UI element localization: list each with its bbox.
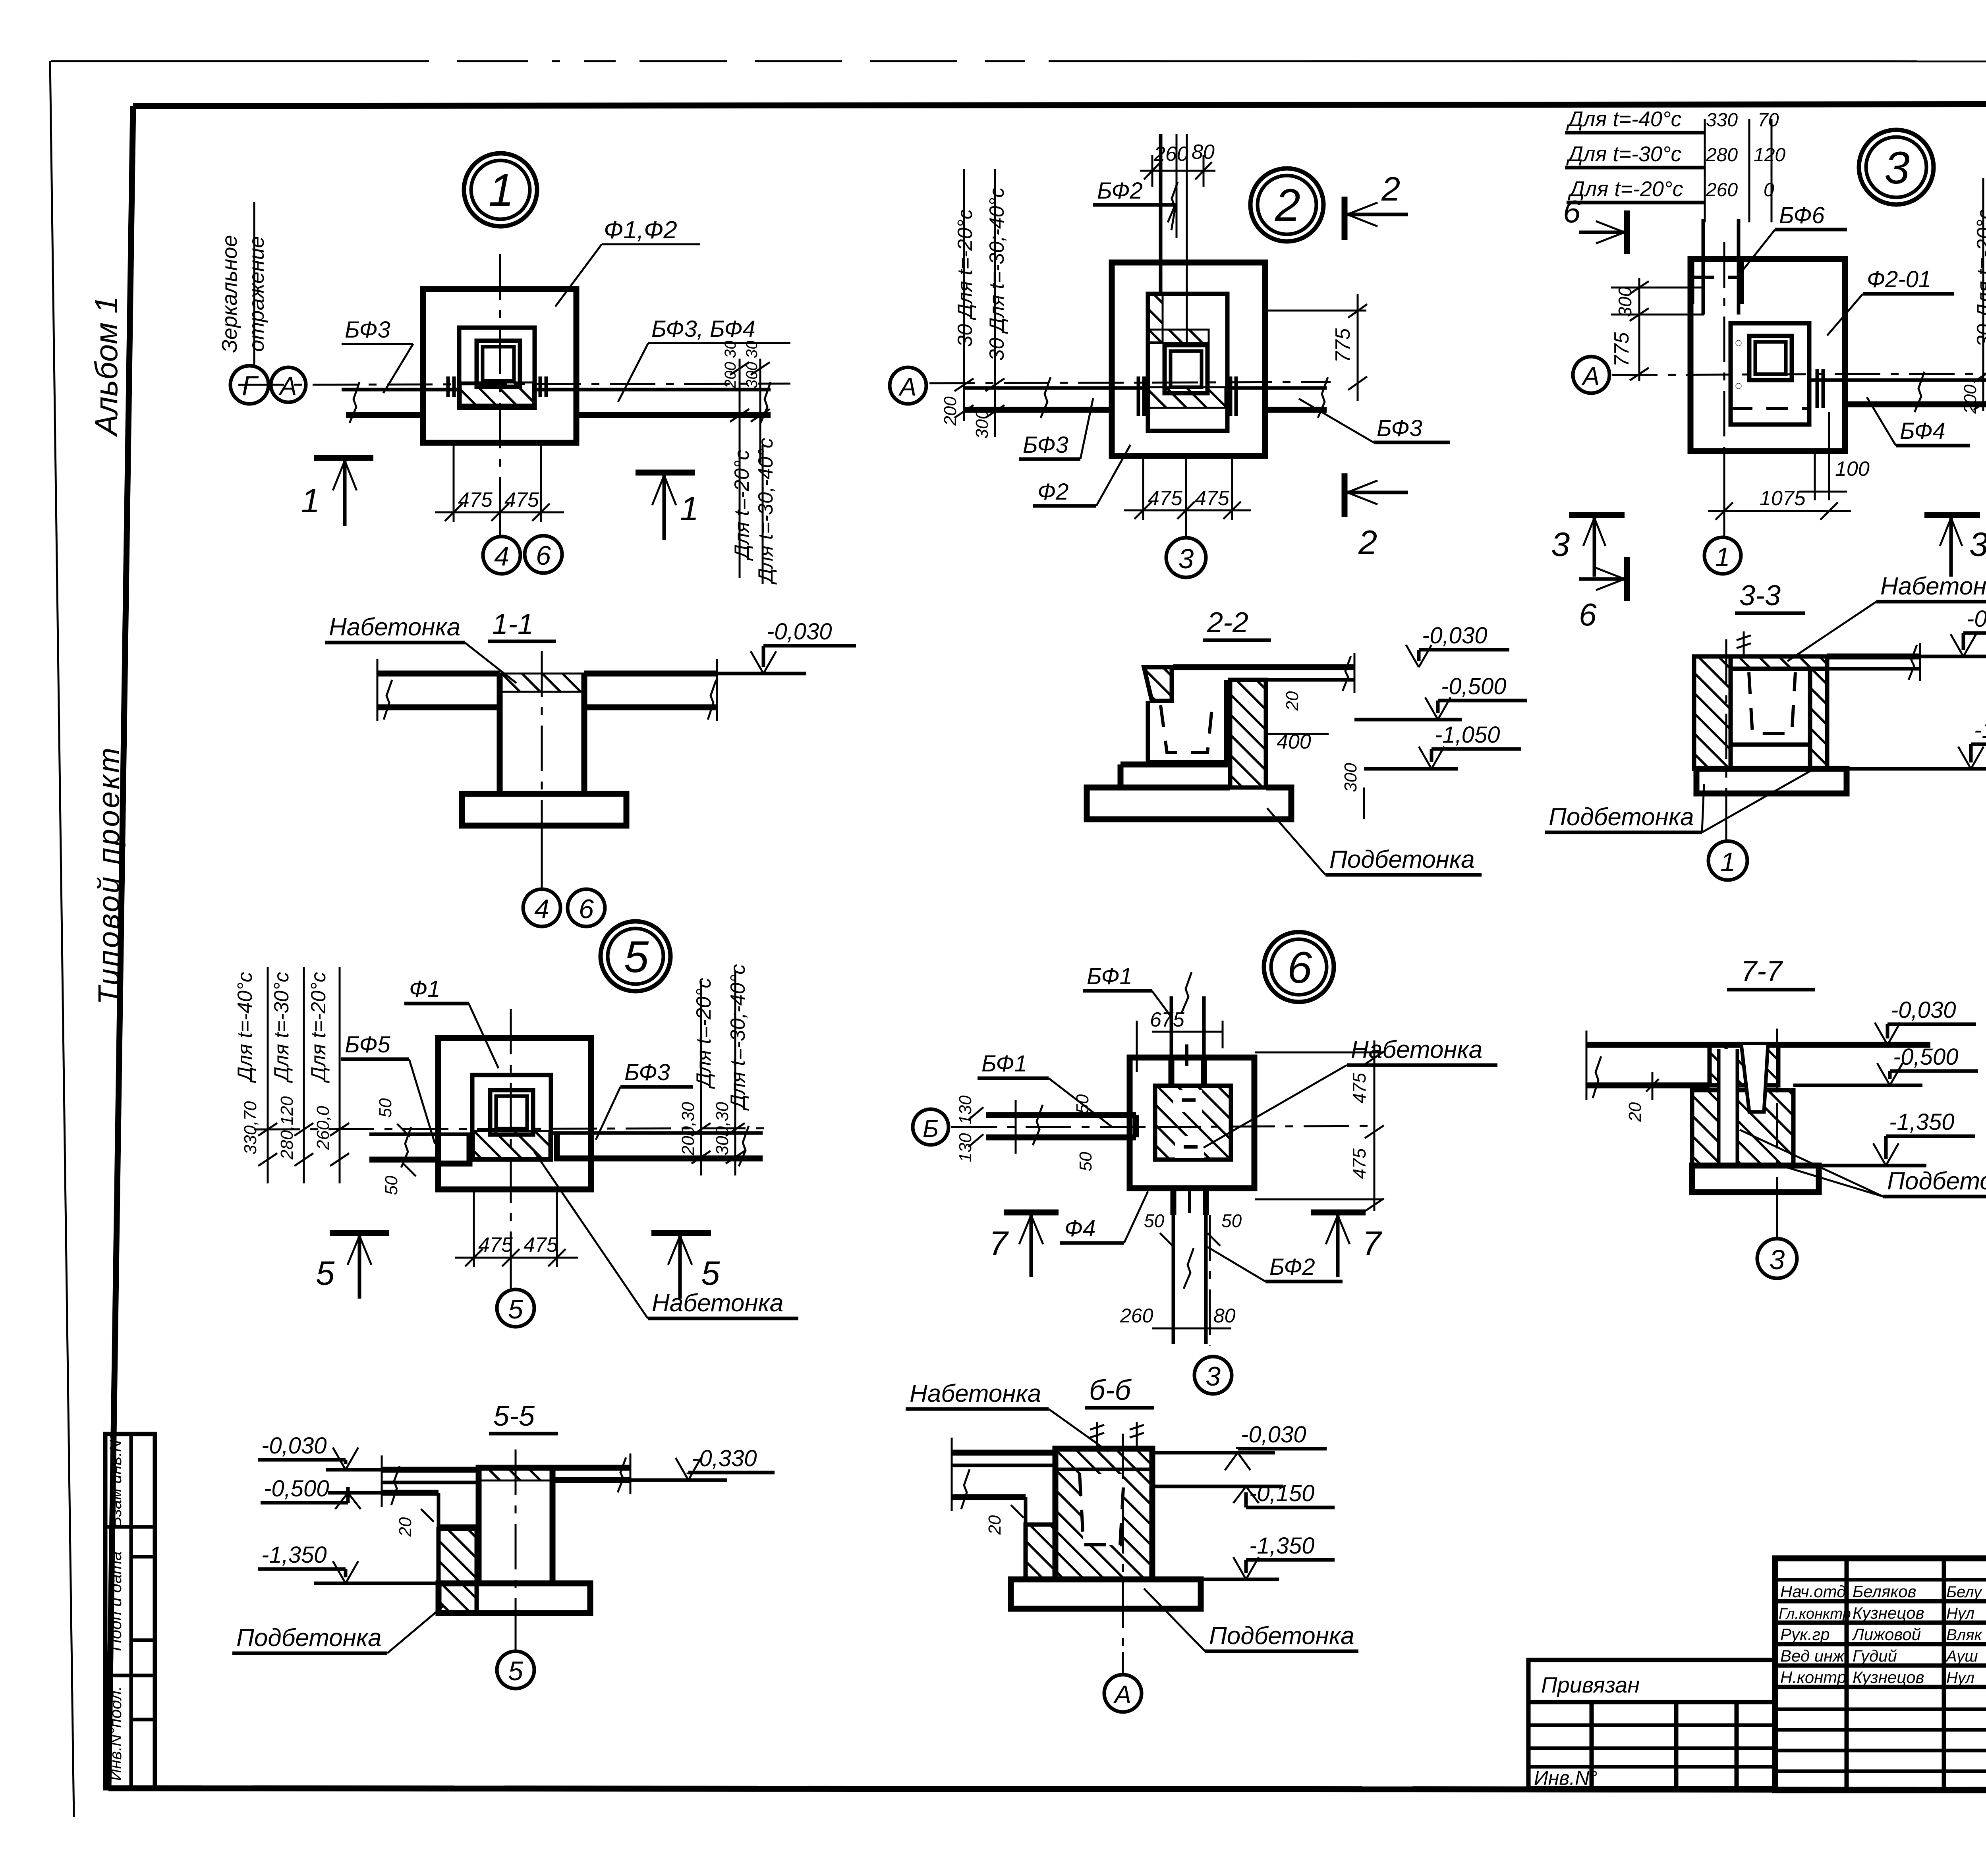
svg-text:330,70: 330,70: [241, 1101, 260, 1154]
left slab: [952, 1450, 1055, 1456]
svg-text:Подбетонка: Подбетонка: [1549, 803, 1694, 831]
svg-text:5-5: 5-5: [493, 1400, 535, 1432]
svg-text:20: 20: [985, 1515, 1005, 1535]
svg-text:300: 300: [1615, 286, 1635, 317]
section mark 2 bottom: [1342, 473, 1348, 517]
dim 260 80 top: [1151, 155, 1153, 187]
svg-text:Нул: Нул: [1946, 1669, 1974, 1687]
svg-text:5: 5: [701, 1255, 720, 1292]
svg-text:200: 200: [722, 362, 739, 389]
svg-text:80: 80: [1213, 1305, 1236, 1327]
ticks at inner square: [1137, 376, 1140, 416]
svg-text:БФ2: БФ2: [1269, 1254, 1315, 1280]
svg-text:-0,030: -0,030: [767, 619, 832, 645]
axis horizontal through square: [1155, 1126, 1374, 1127]
svg-text:Взам инв.N°: Взам инв.N°: [106, 1433, 125, 1528]
svg-text:Вляк: Вляк: [1946, 1626, 1983, 1644]
svg-text:2: 2: [1381, 170, 1400, 208]
section 2-2: [1087, 607, 1527, 875]
svg-text:475: 475: [458, 488, 493, 511]
footing square F1,F2: [423, 289, 576, 443]
white anchor channels: [1719, 1049, 1737, 1164]
rebar mark on top: [1743, 631, 1745, 656]
node 1 plan: [218, 153, 790, 585]
sheet outer thin left line: [50, 61, 74, 1817]
svg-text:260: 260: [1706, 179, 1738, 201]
svg-text:Нач.отд.: Нач.отд.: [1780, 1582, 1851, 1601]
svg-text:-0,030: -0,030: [261, 1433, 326, 1459]
section 5-5: [232, 1400, 775, 1689]
svg-text:50: 50: [376, 1098, 395, 1117]
svg-text:Беляков: Беляков: [1853, 1582, 1916, 1601]
svg-text:Набетонка: Набетонка: [652, 1289, 783, 1317]
svg-text:6: 6: [1579, 597, 1597, 632]
svg-text:50: 50: [1076, 1152, 1095, 1171]
privyazan table: [1528, 1660, 1775, 1789]
node 3 plan: [1551, 107, 1986, 632]
footing F4: [1130, 1058, 1254, 1188]
nabetonka hatch: [500, 674, 584, 692]
svg-text:1: 1: [680, 490, 699, 528]
node 6 plan: [913, 932, 1497, 1394]
top slab: [1173, 664, 1354, 670]
svg-text:5: 5: [624, 932, 649, 982]
svg-text:Н.контр.: Н.контр.: [1780, 1668, 1851, 1687]
svg-text:БФ3: БФ3: [1023, 432, 1068, 458]
svg-text:7: 7: [989, 1225, 1009, 1262]
signature table: [1775, 1578, 1986, 1582]
svg-text:300,30: 300,30: [713, 1102, 732, 1155]
svg-text:-1,350: -1,350: [1889, 1109, 1954, 1135]
svg-text:30: 30: [722, 341, 739, 359]
hatch upper sliver: [1149, 295, 1163, 342]
svg-text:50: 50: [1144, 1210, 1165, 1231]
axis vertical: [510, 1009, 512, 1239]
svg-text:100: 100: [1835, 457, 1870, 481]
svg-text:-1,350: -1,350: [261, 1542, 326, 1568]
wall hatchy ticks at column: [446, 376, 450, 397]
dim 1075: [1723, 451, 1725, 520]
svg-text:4: 4: [494, 541, 509, 571]
svg-text:50: 50: [382, 1175, 401, 1195]
svg-text:БФ2: БФ2: [1097, 178, 1143, 204]
svg-text:7-7: 7-7: [1741, 955, 1783, 987]
axis circle A: [271, 367, 306, 402]
svg-text:Альбом 1: Альбом 1: [89, 296, 124, 437]
left dim strip: [963, 169, 965, 421]
svg-text:Г: Г: [242, 370, 259, 401]
section mark 1 left: [314, 455, 373, 461]
svg-text:БФ1: БФ1: [1087, 963, 1132, 989]
svg-text:Набетонка: Набетонка: [1351, 1036, 1482, 1063]
svg-text:475: 475: [504, 488, 539, 511]
svg-text:1: 1: [301, 482, 320, 520]
podbetonka hatched column: [439, 1529, 477, 1613]
svg-text:475: 475: [524, 1233, 558, 1256]
footing: [1692, 1166, 1819, 1192]
svg-text:300: 300: [1341, 763, 1360, 792]
svg-text:-0,030: -0,030: [1891, 997, 1956, 1023]
footing F2: [1112, 262, 1265, 456]
node 2 plan: [890, 134, 1450, 577]
svg-text:А: А: [278, 372, 297, 400]
svg-text:-0,500: -0,500: [1893, 1044, 1958, 1070]
section mark 3 left: [1569, 512, 1625, 518]
dim 100: [1814, 451, 1816, 500]
svg-text:Для t=-30°c: Для t=-30°c: [1566, 142, 1682, 166]
svg-text:-1,350: -1,350: [1974, 717, 1986, 743]
pier: [497, 674, 503, 794]
svg-text:Кузнецов: Кузнецов: [1853, 1668, 1924, 1687]
svg-text:Привязан: Привязан: [1541, 1672, 1640, 1697]
right dim strip: [700, 981, 702, 1175]
vertical wall BF1 up: [1170, 996, 1173, 1058]
svg-text:1: 1: [1720, 847, 1735, 877]
svg-text:Для t=-20°c: Для t=-20°c: [307, 972, 330, 1083]
hatched pier body: [1692, 1090, 1793, 1166]
svg-text:БФ1: БФ1: [981, 1051, 1027, 1077]
central hatched column: [1230, 680, 1266, 787]
svg-text:Гудий: Гудий: [1853, 1646, 1897, 1665]
svg-text:Зеркальное: Зеркальное: [218, 235, 241, 353]
axis vertical to circle 3: [1185, 456, 1187, 537]
svg-text:БФ3, БФ4: БФ3, БФ4: [651, 316, 755, 342]
svg-text:775: 775: [1331, 328, 1354, 363]
svg-text:475: 475: [1349, 1148, 1370, 1179]
svg-text:6: 6: [536, 540, 551, 571]
dim 775 right: [1265, 310, 1366, 312]
white trough dashed inside: [1080, 1474, 1124, 1545]
section mark 5 right: [651, 1230, 711, 1236]
left dim strip triple: [267, 967, 269, 1183]
section mark 1 right: [636, 470, 695, 476]
svg-text:БФ3: БФ3: [345, 317, 390, 343]
svg-text:1: 1: [1716, 542, 1730, 571]
small hatched step left: [1026, 1525, 1055, 1579]
svg-text:БФ6: БФ6: [1779, 203, 1825, 228]
section mark 2 top: [1342, 197, 1348, 240]
axis: [1122, 1434, 1124, 1652]
dim 675: [1152, 1031, 1223, 1033]
BF2 wall strip from top: [1159, 134, 1163, 295]
svg-text:775: 775: [1610, 332, 1633, 367]
svg-text:Лижовой: Лижовой: [1851, 1625, 1921, 1644]
axis horizontal: [929, 382, 1331, 383]
svg-text:280: 280: [1706, 145, 1738, 166]
svg-text:6: 6: [1563, 194, 1581, 229]
wall left: [342, 388, 461, 392]
left slab: [382, 1467, 479, 1473]
svg-text:280,120: 280,120: [277, 1096, 297, 1160]
column: [1165, 345, 1207, 393]
svg-text:Ф2-01: Ф2-01: [1867, 266, 1931, 292]
horizontal wall left: [986, 1112, 1136, 1118]
right slab: [553, 1465, 630, 1471]
svg-text:475: 475: [1349, 1073, 1370, 1103]
section mark 7 right: [1311, 1210, 1366, 1216]
hatch band at axis: [1149, 387, 1225, 408]
section 1-1: [325, 608, 856, 926]
svg-text:Гл.конктр: Гл.конктр: [1779, 1606, 1851, 1622]
svg-text:Набетонка: Набетонка: [910, 1380, 1041, 1407]
section 6-6: [906, 1374, 1358, 1712]
svg-text:Подбетонка: Подбетонка: [1209, 1622, 1354, 1650]
right dim strip: [1982, 178, 1984, 411]
trough right wall hatched: [1810, 669, 1827, 769]
footing: [439, 1583, 590, 1613]
svg-text:2: 2: [1358, 524, 1377, 562]
svg-text:Набетонка: Набетонка: [1880, 573, 1986, 600]
axis circle G: [230, 366, 269, 404]
svg-text:20: 20: [1283, 691, 1302, 711]
svg-text:2: 2: [1275, 180, 1300, 231]
svg-text:Ф1,Ф2: Ф1,Ф2: [604, 216, 677, 244]
svg-text:Нул: Нул: [1946, 1605, 1974, 1622]
column: [490, 1090, 533, 1135]
sheet outer thin top line: [51, 60, 429, 62]
svg-text:-0,030: -0,030: [1422, 623, 1487, 648]
hatch band: [474, 1131, 549, 1158]
svg-text:Для t=-30°c: Для t=-30°c: [270, 972, 293, 1083]
svg-text:БФ3: БФ3: [624, 1060, 670, 1085]
dim 260 80 bottom: [1173, 1310, 1175, 1338]
axis horizontal: [238, 384, 790, 385]
svg-text:20: 20: [396, 1517, 415, 1537]
svg-text:А: А: [898, 372, 917, 401]
svg-text:260,0: 260,0: [313, 1106, 333, 1150]
section mark 6 bottom: [1579, 577, 1625, 581]
section mark 3 right: [1924, 512, 1980, 518]
hatch band: [461, 382, 533, 405]
svg-text:2-2: 2-2: [1207, 607, 1248, 639]
svg-text:200: 200: [941, 396, 960, 426]
svg-text:3-3: 3-3: [1739, 580, 1781, 612]
dim 475 475: [473, 1189, 475, 1267]
footing: [1011, 1579, 1201, 1609]
svg-text:Ауш: Ауш: [1945, 1648, 1978, 1665]
vertical wall BF2 down: [1171, 1188, 1177, 1215]
pier: [479, 1468, 553, 1583]
svg-text:-0,030: -0,030: [1241, 1422, 1306, 1448]
axis vertical: [1723, 242, 1725, 473]
inner square hatched: [1155, 1086, 1231, 1160]
svg-text:Ф4: Ф4: [1064, 1216, 1095, 1241]
svg-text:5: 5: [508, 1294, 523, 1324]
svg-text:Для t=-20°c: Для t=-20°c: [692, 978, 715, 1089]
svg-text:200,30: 200,30: [678, 1102, 698, 1156]
svg-text:300: 300: [972, 409, 992, 439]
BF6 pilaster at top: [1702, 219, 1705, 315]
axis vertical: [499, 254, 501, 496]
axis circle B: [913, 1109, 949, 1145]
bottom circle 3: [1194, 1357, 1232, 1394]
left hatched wall: [1694, 656, 1731, 769]
axis: [1725, 639, 1727, 818]
bottom circle 5: [497, 1289, 534, 1327]
rebar marks on top: [1096, 1422, 1098, 1449]
svg-text:Для t=-20°c: Для t=-20°c: [730, 450, 753, 561]
dashed line inside: [1731, 407, 1809, 410]
wall right: [552, 1131, 763, 1135]
svg-text:-0,500: -0,500: [1441, 674, 1506, 699]
left hatched block: [1144, 667, 1172, 701]
svg-text:Для t=-40°c: Для t=-40°c: [234, 972, 257, 1083]
wall right: [535, 388, 771, 392]
svg-text:Для t=-40°c: Для t=-40°c: [1566, 107, 1682, 131]
svg-text:30 Для t=-20°c: 30 Для t=-20°c: [1973, 209, 1986, 347]
main frame: [133, 104, 1986, 106]
svg-text:30 Для t=-20°c: 30 Для t=-20°c: [954, 209, 977, 347]
svg-text:Подбетонка: Подбетонка: [1329, 846, 1475, 873]
svg-text:5: 5: [508, 1656, 523, 1686]
dims 130 130 left: [1015, 1100, 1017, 1154]
svg-text:3: 3: [1551, 526, 1570, 564]
column: [477, 341, 520, 387]
svg-text:3: 3: [1770, 1244, 1785, 1275]
svg-text:Подп и дата: Подп и дата: [106, 1551, 125, 1651]
anchor ticks: [1816, 369, 1819, 408]
svg-text:7: 7: [1362, 1225, 1382, 1262]
axis horizontal: [254, 1128, 767, 1129]
slab: [377, 671, 500, 677]
step footing: [1087, 764, 1291, 819]
svg-text:3: 3: [1969, 526, 1986, 564]
svg-text:Ф2: Ф2: [1037, 479, 1068, 505]
axis: [1776, 1029, 1778, 1223]
svg-text:3: 3: [1884, 143, 1910, 193]
top slab hatch: [1731, 656, 1827, 669]
footing: [1696, 769, 1847, 793]
left margin table strip: [105, 1433, 155, 1788]
axis horizontal: [1612, 374, 1986, 375]
svg-text:1: 1: [489, 165, 514, 216]
svg-text:Кузнецов: Кузнецов: [1853, 1604, 1924, 1622]
wall right: [1226, 386, 1327, 390]
right dim strip: [739, 359, 741, 463]
svg-text:-0,030: -0,030: [1967, 606, 1986, 632]
svg-text:отражение: отражение: [245, 236, 269, 351]
axis: [515, 1449, 517, 1630]
bottom circles 4 6: [483, 537, 520, 574]
svg-text:Белу: Белу: [1946, 1583, 1983, 1601]
svg-text:Типовой проект: Типовой проект: [92, 746, 126, 1005]
svg-text:130: 130: [956, 1095, 975, 1125]
node 5 plan: [234, 921, 798, 1327]
svg-text:Рук.гр: Рук.гр: [1780, 1625, 1830, 1644]
svg-text:475: 475: [478, 1233, 513, 1256]
big hatched block: [1055, 1449, 1152, 1579]
footing F2-01: [1690, 259, 1845, 451]
left dim 775/300: [1638, 278, 1640, 381]
svg-text:260: 260: [1120, 1305, 1153, 1327]
svg-text:Для t=-30;-40°c: Для t=-30;-40°c: [726, 964, 750, 1111]
svg-text:Для t=-30;-40°c: Для t=-30;-40°c: [754, 438, 777, 585]
svg-text:4: 4: [534, 894, 549, 924]
trough walls: [1146, 701, 1150, 762]
svg-text:5: 5: [316, 1255, 335, 1292]
svg-text:1-1: 1-1: [492, 608, 533, 640]
dim 475 475 right: [1255, 1052, 1382, 1054]
svg-text:300: 300: [743, 362, 761, 388]
dim 475 475 bottom: [1142, 456, 1144, 520]
svg-text:130: 130: [956, 1133, 975, 1162]
svg-text:80: 80: [1192, 141, 1215, 164]
svg-text:-1,050: -1,050: [1435, 722, 1500, 748]
svg-text:-0,500: -0,500: [264, 1476, 329, 1502]
wall right BF4: [1811, 378, 1986, 382]
svg-text:1075: 1075: [1760, 487, 1806, 510]
bottom circles: [523, 889, 560, 926]
section mark 5 left: [330, 1230, 389, 1236]
svg-text:475: 475: [1195, 487, 1230, 510]
svg-text:Инв.N°подл.: Инв.N°подл.: [106, 1686, 125, 1781]
axis circle A: [890, 367, 926, 404]
svg-text:А: А: [1113, 1680, 1132, 1709]
svg-text:200: 200: [1961, 384, 1980, 414]
slab right: [1827, 654, 1920, 660]
wall left with notch: [369, 1133, 473, 1136]
svg-text:Подбетонка: Подбетонка: [236, 1624, 382, 1652]
svg-text:400: 400: [1277, 730, 1311, 753]
svg-text:260: 260: [1153, 143, 1188, 166]
mirror note: [253, 202, 255, 366]
svg-text:-1,350: -1,350: [1249, 1533, 1314, 1559]
svg-text:6: 6: [1287, 943, 1312, 992]
svg-text:А: А: [1581, 362, 1600, 390]
svg-text:Вед инж: Вед инж: [1780, 1646, 1845, 1665]
svg-text:БФ3: БФ3: [1377, 415, 1422, 441]
hatched pier top part: [1710, 1045, 1778, 1085]
section 3-3: [1545, 573, 1986, 880]
axis: [541, 651, 543, 838]
slab: [1586, 1042, 1930, 1048]
svg-text:30: 30: [743, 341, 761, 359]
footing F1: [438, 1038, 591, 1189]
svg-text:Для t=-20°c: Для t=-20°c: [1568, 177, 1683, 201]
section 7-7: [1586, 955, 1986, 1278]
trough inner bottom: [1731, 743, 1810, 747]
svg-text:475: 475: [1148, 487, 1183, 510]
svg-text:30 Для t=-30;-40°c: 30 Для t=-30;-40°c: [985, 187, 1008, 361]
dim 475 475: [453, 443, 455, 522]
svg-text:50: 50: [1221, 1210, 1242, 1231]
svg-text:Набетонка: Набетонка: [329, 614, 460, 641]
section mark 7 left: [1004, 1210, 1059, 1216]
svg-text:Ф1: Ф1: [409, 976, 440, 1002]
svg-text:Инв.N°: Инв.N°: [1534, 1767, 1597, 1789]
svg-text:6: 6: [579, 894, 594, 924]
svg-text:3: 3: [1178, 543, 1194, 574]
svg-text:20: 20: [1625, 1102, 1645, 1122]
svg-text:120: 120: [1754, 145, 1785, 166]
footing: [462, 794, 626, 826]
svg-text:3: 3: [1206, 1361, 1221, 1392]
svg-text:Подбетонка: Подбетонка: [1887, 1168, 1986, 1195]
wall left: [965, 386, 1149, 390]
svg-text:Б: Б: [923, 1115, 939, 1143]
title block: [1775, 1528, 1986, 1819]
svg-text:70: 70: [1758, 110, 1779, 131]
svg-text:б-б: б-б: [1089, 1374, 1132, 1406]
svg-text:БФ4: БФ4: [1900, 418, 1945, 444]
svg-text:0: 0: [1764, 179, 1774, 201]
svg-text:330: 330: [1706, 110, 1738, 131]
svg-text:БФ5: БФ5: [345, 1032, 391, 1058]
column: [1749, 336, 1792, 380]
